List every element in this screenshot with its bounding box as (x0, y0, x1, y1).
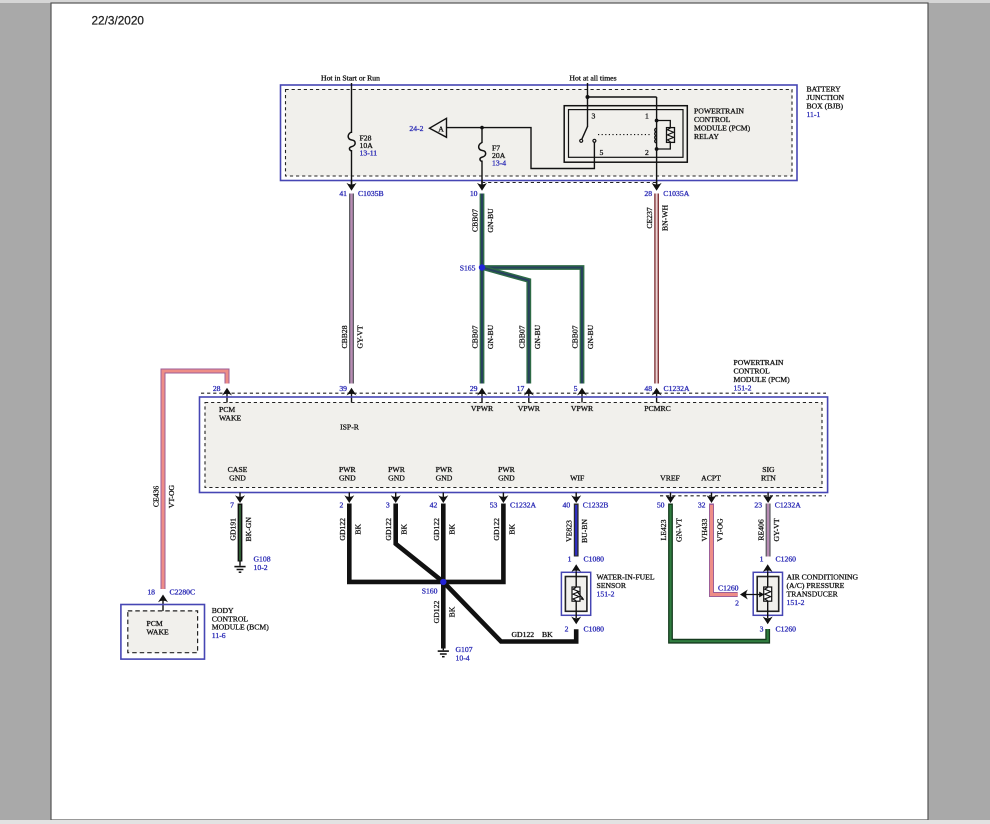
junction node on Hot at all times wire (586, 95, 590, 99)
connector dashed line below BJB pins 10-28 (482, 182, 657, 184)
relay title (694, 107, 751, 142)
svg-text:1: 1 (568, 555, 572, 564)
CASE GND output label (228, 465, 248, 483)
svg-text:11-1: 11-1 (807, 110, 821, 119)
svg-text:BK: BK (507, 524, 516, 535)
svg-text:VPWR: VPWR (471, 404, 494, 413)
svg-text:10-2: 10-2 (254, 563, 268, 572)
fuse F7 value labels (492, 144, 506, 168)
svg-text:PWR: PWR (388, 465, 406, 474)
BJB exit arrow pin 28 (652, 181, 662, 191)
svg-text:BK: BK (447, 606, 456, 617)
wire GD122 BK from splice S160 to ground G107 (441, 582, 446, 649)
PCM pin 42 exit arrow (438, 493, 448, 504)
BCM title (212, 606, 269, 640)
relay switch contact circles (580, 139, 583, 142)
svg-text:18: 18 (147, 588, 155, 597)
relay coil pin 2 junction (655, 147, 659, 151)
relay coil wire down to BJB exit pin 28 (656, 97, 658, 187)
PCM title (734, 358, 791, 393)
svg-text:2: 2 (735, 598, 739, 607)
relay coil (655, 128, 657, 143)
svg-text:GN-VT: GN-VT (675, 518, 684, 542)
fuse F28 (348, 132, 355, 151)
svg-text:40: 40 (563, 501, 571, 510)
svg-text:GN-BU: GN-BU (586, 324, 595, 349)
wire GN-BU branch from S165 to PCM pin 5 (482, 268, 582, 384)
svg-text:CE237: CE237 (645, 207, 654, 229)
svg-text:7: 7 (230, 501, 234, 510)
svg-text:CBB07: CBB07 (517, 325, 526, 348)
SIG RTN output label (761, 465, 776, 483)
svg-text:VT-OG: VT-OG (716, 518, 725, 542)
svg-text:Hot at all times: Hot at all times (569, 74, 616, 83)
svg-text:C1232A: C1232A (510, 501, 537, 510)
svg-text:GND: GND (388, 474, 405, 483)
fuse F7 (479, 143, 486, 162)
WIF sensor bottom shaft (575, 601, 577, 618)
svg-text:C1080: C1080 (584, 555, 605, 564)
svg-text:50: 50 (657, 501, 665, 510)
svg-text:22/3/2020: 22/3/2020 (92, 14, 145, 28)
body control module BCM box (121, 605, 205, 660)
BJB exit arrow pin 10 (477, 181, 487, 191)
svg-text:29: 29 (470, 384, 478, 393)
PCM pin 50 exit arrow (666, 493, 676, 504)
svg-text:VT-OG: VT-OG (167, 484, 176, 508)
svg-text:CASE: CASE (228, 465, 248, 474)
splice S165 (479, 264, 485, 270)
svg-text:3: 3 (592, 112, 596, 121)
svg-text:PCM: PCM (219, 405, 235, 414)
PCM pin 53 exit arrow (498, 493, 508, 504)
PWR GND output label pin 42 (436, 465, 454, 483)
svg-text:GD122: GD122 (512, 630, 535, 639)
svg-text:PWR: PWR (498, 465, 516, 474)
wire GD122 BK from pin 42 to splice S160 (441, 504, 446, 582)
svg-text:2: 2 (645, 148, 649, 157)
svg-text:SIG: SIG (762, 465, 775, 474)
wire from F7 to BJB exit pin 10 (481, 161, 483, 188)
svg-text:GY-VT: GY-VT (772, 518, 781, 541)
pin 41 labels (339, 189, 383, 198)
svg-text:BK: BK (542, 630, 553, 639)
wire VH433 VT-OG from pin 32 to transducer pin 2 (712, 504, 738, 595)
svg-text:151-2: 151-2 (787, 598, 805, 607)
svg-text:S165: S165 (460, 264, 476, 273)
wire GN-BU branch from S165 to PCM pin 17 (482, 268, 529, 384)
BJB title (807, 85, 845, 120)
battery junction box BJB (281, 85, 798, 181)
wire from F28 to BJB exit pin 41 (351, 150, 353, 187)
transducer pin 3 exit arrow (763, 617, 773, 625)
PCM pin 3 exit arrow (391, 493, 401, 504)
svg-text:VE823: VE823 (565, 520, 574, 542)
ground G108 labels (254, 555, 271, 573)
PCM pin 5 entry arrow (577, 388, 587, 404)
svg-text:C1260: C1260 (776, 555, 797, 564)
connector dashed line above PCM pins (201, 392, 826, 394)
wire branch from junction to relay coil (588, 96, 657, 98)
pin 48 labels (644, 384, 690, 393)
svg-text:BK: BK (353, 524, 362, 535)
svg-text:GND: GND (498, 474, 515, 483)
svg-text:GND: GND (436, 474, 453, 483)
transducer pin 2 inline connector arrow (740, 590, 764, 600)
connector dashed line below PCM pins 50-23 (660, 495, 826, 497)
svg-text:23: 23 (754, 501, 762, 510)
svg-text:WAKE: WAKE (147, 628, 170, 637)
junction node at fuse F7 tap (480, 126, 484, 130)
WIF pin 1 entry arrow (571, 564, 581, 587)
relay coil pin 1 junction (655, 119, 659, 123)
svg-text:42: 42 (430, 501, 438, 510)
svg-text:1: 1 (760, 555, 764, 564)
WIF pin 1 shaft (575, 572, 577, 588)
svg-text:CBB07: CBB07 (571, 325, 580, 348)
PCM pin 23 exit arrow (763, 493, 773, 504)
wire from Hot in Start or Run to fuse F28 (351, 83, 353, 133)
WIF sensor title (597, 572, 655, 598)
svg-text:PWR: PWR (436, 465, 454, 474)
wire from tap to fuse F7 (481, 128, 483, 143)
svg-text:C1232A: C1232A (664, 384, 691, 393)
PCM pin 40 exit arrow (571, 493, 581, 504)
svg-text:BK: BK (447, 524, 456, 535)
svg-text:RE406: RE406 (757, 519, 766, 541)
svg-text:151-2: 151-2 (734, 384, 752, 393)
wire GD122 BK from splice S160 to WIF sensor pin 2 (443, 582, 576, 642)
svg-text:GND: GND (339, 474, 356, 483)
ground G108 (234, 562, 245, 573)
svg-text:LE423: LE423 (659, 519, 668, 540)
svg-text:41: 41 (339, 189, 347, 198)
svg-text:13-4: 13-4 (492, 159, 506, 168)
wire CE237 BN-WH from pin 28 to PCM pin 48 (654, 194, 659, 384)
PCM pin 2 exit arrow (344, 493, 354, 504)
wire VE823 BU-BN from pin 40 to WIF sensor (574, 504, 579, 557)
BJB exit arrow pin 41 (347, 181, 357, 191)
svg-text:GD191: GD191 (229, 518, 238, 541)
svg-text:48: 48 (644, 384, 652, 393)
relay actuation dotted line (598, 134, 651, 136)
svg-text:C1260: C1260 (776, 625, 797, 634)
svg-text:GND: GND (229, 474, 246, 483)
svg-text:53: 53 (490, 501, 498, 510)
svg-text:3: 3 (760, 625, 764, 634)
ground G107 labels (456, 645, 473, 663)
svg-text:3: 3 (386, 501, 390, 510)
wire CE436 VT-OG from PCM pin 28 to BCM (163, 371, 227, 589)
svg-text:C1080: C1080 (584, 625, 605, 634)
svg-text:151-2: 151-2 (597, 589, 615, 598)
PCM pin 32 exit arrow (707, 493, 717, 504)
svg-text:WIF: WIF (570, 474, 584, 483)
svg-text:GD122: GD122 (432, 601, 441, 624)
svg-text:39: 39 (339, 384, 347, 393)
BCM PCM WAKE label (147, 619, 170, 637)
svg-text:CE436: CE436 (152, 486, 161, 508)
svg-text:BN-WH: BN-WH (661, 205, 670, 231)
svg-text:C1232B: C1232B (583, 501, 609, 510)
svg-text:BK-GN: BK-GN (244, 517, 253, 542)
ground G107 (438, 649, 449, 657)
A/C pressure transducer box (753, 572, 782, 615)
PCM pin 48 entry arrow (652, 388, 662, 404)
PCM pin 7 exit arrow (235, 493, 245, 504)
svg-text:GD122: GD122 (384, 518, 393, 541)
svg-text:C1232A: C1232A (775, 501, 802, 510)
wire CBB07 GN-BU from pin 10 to splice S165 (480, 194, 485, 384)
splice S160 (440, 579, 446, 585)
transducer pin 3 labels (760, 625, 797, 634)
wire LE423 GN-VT from pin 50 to transducer pin 3 (671, 504, 768, 642)
svg-text:32: 32 (698, 501, 706, 510)
PCM pin 17 entry arrow (524, 388, 534, 404)
svg-text:VREF: VREF (660, 474, 680, 483)
svg-text:24-2: 24-2 (409, 124, 423, 133)
svg-text:VPWR: VPWR (518, 404, 541, 413)
BCM pin 18 labels (147, 588, 195, 597)
svg-text:5: 5 (574, 384, 578, 393)
svg-text:28: 28 (213, 384, 221, 393)
svg-text:5: 5 (600, 148, 604, 157)
svg-text:BK: BK (400, 524, 409, 535)
pin 40 labels (563, 501, 609, 510)
water-in-fuel sensor box (561, 572, 590, 615)
wire GD191 BK-GN from pin 7 to ground G108 (238, 504, 243, 562)
svg-text:RTN: RTN (761, 474, 776, 483)
svg-text:Hot in Start or Run: Hot in Start or Run (321, 74, 380, 83)
svg-text:VH433: VH433 (700, 519, 709, 542)
PWR GND output label pin 3 (388, 465, 406, 483)
svg-text:WAKE: WAKE (219, 414, 242, 423)
fuse F28 value labels (360, 134, 378, 158)
svg-text:GN-BU: GN-BU (486, 208, 495, 233)
off-page connector arrow A 24-2 (409, 118, 446, 137)
WIF pin 2 labels (565, 625, 605, 634)
PCM relay box (564, 106, 687, 163)
PWR GND output label pin 53 (498, 465, 516, 483)
svg-text:ACPT: ACPT (701, 474, 721, 483)
svg-text:GY-VT: GY-VT (356, 325, 365, 348)
svg-text:GD122: GD122 (432, 518, 441, 541)
transducer pin 1 entry arrow (763, 564, 773, 587)
PWR GND output label pin 2 (339, 465, 357, 483)
svg-text:A: A (438, 124, 444, 133)
wire GD122 BK from pin 2 to splice S160 (349, 504, 443, 582)
svg-text:1: 1 (645, 112, 649, 121)
relay switch arm (582, 127, 588, 140)
WIF pin 2 exit arrow (571, 617, 581, 625)
PCM pin 28 entry arrow (222, 388, 232, 404)
svg-text:C1260: C1260 (718, 584, 739, 593)
powertrain control module PCM box (200, 397, 828, 493)
svg-text:GD122: GD122 (492, 518, 501, 541)
relay suppression resistor (667, 128, 675, 143)
svg-text:RELAY: RELAY (694, 132, 719, 141)
svg-text:GN-BU: GN-BU (486, 324, 495, 349)
svg-text:CBB28: CBB28 (340, 325, 349, 348)
svg-text:CBB07: CBB07 (471, 325, 480, 348)
svg-text:11-6: 11-6 (212, 631, 226, 640)
wire GD122 BK from pin 53 to splice S160 (443, 504, 503, 582)
svg-text:10-4: 10-4 (456, 654, 470, 663)
svg-text:PCMRC: PCMRC (644, 404, 671, 413)
svg-text:VPWR: VPWR (571, 404, 594, 413)
wire RE406 GY-VT from pin 23 to transducer pin 1 (766, 504, 771, 557)
PCM pin 39 entry arrow (347, 388, 357, 404)
svg-text:13-11: 13-11 (360, 149, 378, 158)
transducer bottom shaft (767, 601, 769, 618)
svg-text:C1035A: C1035A (663, 189, 690, 198)
pin 53 labels (490, 501, 537, 510)
svg-text:S160: S160 (422, 587, 438, 596)
PCM pin 29 entry arrow (477, 388, 487, 404)
wire from connector A to relay pin 5 (447, 128, 595, 169)
pin 23 labels (754, 501, 801, 510)
svg-text:BU-BN: BU-BN (580, 519, 589, 543)
transducer pin 1 labels (760, 555, 797, 564)
svg-text:PCM: PCM (147, 619, 163, 628)
svg-text:2: 2 (339, 501, 343, 510)
WIF pin 1 labels (568, 555, 605, 564)
svg-text:C2280C: C2280C (170, 588, 196, 597)
svg-text:GD122: GD122 (338, 518, 347, 541)
svg-text:CBB07: CBB07 (471, 209, 480, 232)
relay suppression resistor branch (657, 121, 671, 128)
svg-text:17: 17 (517, 384, 525, 393)
svg-text:10: 10 (470, 189, 478, 198)
svg-text:ISP-R: ISP-R (340, 423, 360, 432)
svg-text:C1035B: C1035B (358, 189, 384, 198)
transducer title (787, 572, 859, 607)
transducer pin 2 labels (718, 584, 739, 608)
svg-text:28: 28 (644, 189, 652, 198)
wire GD122 BK from pin 3 to splice S160 (396, 504, 444, 582)
BCM pin 18 entry arrow (158, 595, 168, 612)
transducer sensor element (764, 587, 772, 601)
wire from Hot at all times down to relay switch (587, 83, 589, 127)
PCM WAKE input label (219, 405, 242, 423)
WIF sensor element (572, 587, 584, 601)
svg-text:GN-BU: GN-BU (533, 324, 542, 349)
svg-text:PWR: PWR (339, 465, 357, 474)
pin 28 labels (644, 189, 689, 198)
wire CBB28 GY-VT from pin 41 to PCM pin 39 (349, 194, 354, 384)
transducer pin 1 shaft (767, 572, 769, 588)
svg-text:2: 2 (565, 625, 569, 634)
